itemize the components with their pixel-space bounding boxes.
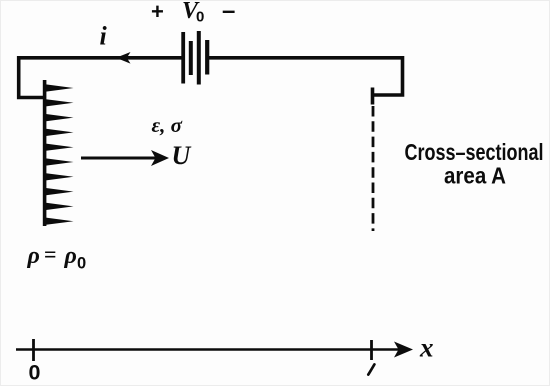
- label x on axis: [419, 333, 434, 363]
- svg-text:ε, σ: ε, σ: [152, 113, 183, 137]
- label - terminal: [222, 0, 235, 24]
- label + terminal: [151, 0, 164, 24]
- wire top-right segment with right corner down to right plate: [209, 58, 403, 95]
- svg-text:0: 0: [196, 8, 204, 25]
- axis tick at 0: [32, 339, 35, 361]
- charge-sheet teeth on left plate: [46, 84, 74, 224]
- battery V0: plate short inner-left: [189, 41, 193, 75]
- svg-text:x: x: [419, 333, 434, 363]
- svg-text:Cross–sectional: Cross–sectional: [405, 139, 544, 165]
- velocity arrow U: [81, 150, 169, 166]
- svg-text:=: =: [44, 242, 57, 267]
- svg-text:ρ: ρ: [27, 243, 40, 269]
- battery V0: plate long inner-right: [197, 31, 201, 85]
- svg-text:0: 0: [29, 361, 41, 385]
- axis tick at l: [370, 340, 373, 360]
- label U: [172, 141, 192, 170]
- right electrode plate stub: [371, 88, 375, 105]
- label l on axis: [368, 364, 374, 374]
- svg-text:i: i: [100, 22, 108, 51]
- svg-text:U: U: [172, 141, 192, 170]
- dashed cross-section boundary line: [372, 106, 375, 231]
- battery V0: plate long left: [181, 32, 185, 84]
- x axis line: [16, 348, 400, 351]
- battery V0: plate short right: [205, 40, 209, 75]
- current arrow on top wire: [116, 52, 131, 64]
- wire top-left segment with left corner down to left plate: [19, 58, 183, 98]
- svg-text:–: –: [222, 0, 235, 24]
- label epsilon sigma: [152, 113, 183, 137]
- label rho = rho0: [27, 242, 87, 273]
- label 0 on axis: [29, 361, 41, 385]
- svg-text:0: 0: [77, 255, 86, 273]
- svg-text:ρ: ρ: [64, 243, 77, 269]
- label V0: [182, 0, 204, 25]
- left electrode plate: [43, 80, 47, 226]
- svg-text:+: +: [151, 0, 164, 24]
- label Cross-sectional area A: [405, 139, 544, 189]
- svg-text:area A: area A: [444, 163, 506, 189]
- x axis arrowhead: [394, 342, 413, 358]
- label i: [100, 22, 108, 51]
